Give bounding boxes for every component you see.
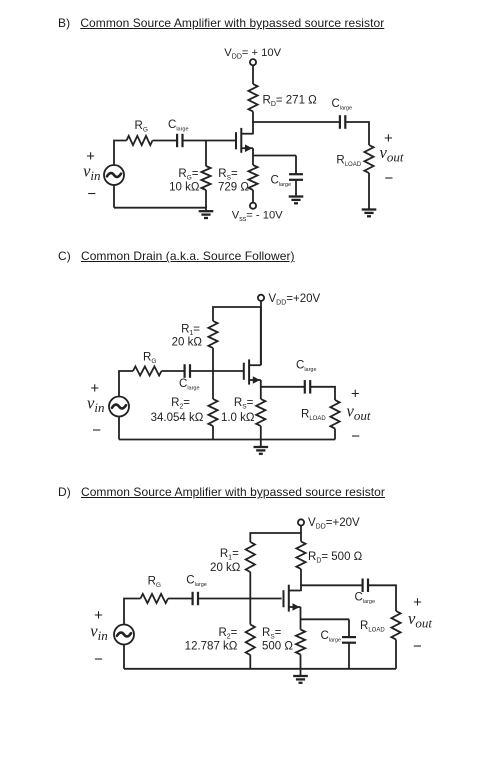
transistor M3 source arrow — [293, 603, 300, 611]
label minus vin (C) — [92, 422, 101, 439]
label VSS B — [232, 209, 283, 223]
svg-text:Clarge: Clarge — [168, 119, 189, 133]
transistor M3 gate bar — [283, 590, 285, 607]
label vout (C) — [347, 401, 371, 423]
label Clarge output (C) — [296, 360, 317, 374]
label RG (D) — [148, 576, 161, 590]
node VSS terminal B — [250, 203, 256, 209]
wire RD bottom to drain (B) — [252, 112, 254, 135]
label minus vout (D) — [413, 638, 422, 655]
wire bypass cap stem (B) — [295, 156, 297, 175]
label minus vin (B) — [87, 186, 96, 203]
label VDD D — [308, 517, 360, 531]
svg-text:vout: vout — [408, 609, 432, 631]
svg-text:RS=: RS= — [262, 627, 282, 641]
wire RG to cap (D) — [168, 598, 193, 600]
transistor M2 channel bar — [248, 359, 250, 384]
label RG (C) — [143, 351, 156, 365]
svg-text:−: − — [385, 170, 394, 187]
wire RD bottom to drain (D) — [300, 569, 302, 591]
wire source down to RS (B) — [252, 148, 254, 165]
source vin (C) — [109, 397, 129, 417]
label plus vin (D) — [94, 607, 103, 624]
label RS line1 (D) — [262, 627, 282, 641]
wire cap to gate (D) — [198, 598, 282, 600]
svg-text:Vss= - 10V: Vss= - 10V — [232, 209, 283, 223]
label plus vin (C) — [90, 380, 99, 397]
transistor M1 source arrow — [245, 144, 252, 152]
wire source node to bypass cap (B) — [253, 155, 296, 157]
transistor M2 gate bar — [243, 363, 245, 380]
wire vin to RG (D) — [124, 599, 141, 625]
source vin (B) — [104, 165, 124, 185]
label vout (D) — [408, 609, 432, 631]
wire R1 to gate wire (D) — [249, 572, 251, 599]
resistor RS (C) — [256, 399, 265, 426]
wire RG to cap (C) — [162, 370, 185, 372]
svg-text:RS=: RS= — [234, 397, 254, 411]
wire bottom rail (C) — [119, 439, 335, 441]
wire RLOAD to rail (C) — [334, 429, 336, 440]
svg-text:R2=: R2= — [171, 397, 190, 411]
transistor M2 source lead — [249, 379, 261, 381]
svg-text:Clarge: Clarge — [332, 98, 353, 112]
resistor R1 (D) — [246, 542, 255, 572]
wire cap to gate (C) — [190, 370, 243, 372]
svg-text:12.787 kΩ: 12.787 kΩ — [185, 641, 238, 653]
label R1 line1 (D) — [220, 548, 239, 562]
capacitor Clarge input (B) — [177, 134, 182, 147]
wire gate node down to RG bias (B) — [205, 141, 207, 167]
wire drain lead up (C) — [260, 307, 262, 365]
label Clarge input (B) — [168, 119, 189, 133]
wire source node to out cap (C) — [261, 386, 305, 388]
svg-text:−: − — [351, 428, 360, 445]
wire vin to RG (B) — [114, 141, 127, 166]
wire R2 to rail (C) — [212, 426, 214, 440]
node VDD terminal C — [258, 295, 264, 301]
svg-text:RLOAD: RLOAD — [336, 154, 361, 168]
resistor RG bias 10k (B) — [201, 166, 210, 190]
svg-text:20 kΩ: 20 kΩ — [172, 337, 203, 349]
wire bottom rail (B) — [114, 207, 206, 209]
wire source node to bypass cap (D) — [301, 618, 350, 620]
ground under RLOAD (B) — [362, 210, 377, 217]
label R1 line2 (D) — [210, 562, 241, 574]
svg-text:−: − — [413, 638, 422, 655]
resistor RG series (B) — [127, 136, 153, 145]
capacitor Clarge output (C) — [305, 380, 310, 394]
svg-text:34.054 kΩ: 34.054 kΩ — [151, 412, 204, 424]
svg-text:vout: vout — [347, 401, 371, 423]
label plus vout (B) — [384, 130, 393, 147]
svg-text:10 kΩ: 10 kΩ — [169, 181, 200, 193]
resistor RLOAD (C) — [330, 400, 339, 429]
svg-text:+: + — [351, 386, 360, 403]
svg-text:VDD=+20V: VDD=+20V — [308, 517, 360, 531]
svg-text:R1=: R1= — [220, 548, 239, 562]
svg-text:RLOAD: RLOAD — [360, 620, 385, 634]
wire cap to RLOAD top (B) — [345, 122, 369, 145]
resistor RLOAD (B) — [364, 145, 373, 173]
label R2 line1 (C) — [171, 397, 190, 411]
transistor M1 source lead — [241, 147, 253, 149]
svg-text:RS=: RS= — [218, 168, 238, 182]
wire bypass cap to ground (B) — [295, 180, 297, 196]
node VDD terminal B — [250, 59, 256, 65]
label R2 line1 (D) — [218, 627, 237, 641]
ground under bypass cap (B) — [289, 197, 304, 204]
label RLOAD (C) — [301, 408, 326, 422]
svg-text:RLOAD: RLOAD — [301, 408, 326, 422]
label Clarge output (D) — [355, 592, 376, 606]
wire RG bias to rail (B) — [205, 190, 207, 208]
wire bypass cap to rail (D) — [348, 643, 350, 669]
label RLOAD (D) — [360, 620, 385, 634]
label Clarge input (C) — [179, 378, 200, 392]
svg-text:1.0 kΩ: 1.0 kΩ — [221, 412, 255, 424]
wire RS to rail (C) — [260, 426, 262, 440]
wire vin bottom (B) — [113, 185, 115, 208]
wire R1 to gate wire (C) — [212, 348, 214, 371]
svg-text:20 kΩ: 20 kΩ — [210, 562, 241, 574]
transistor M3 drain lead — [289, 590, 301, 592]
svg-text:RG: RG — [148, 576, 161, 590]
label vin (C) — [87, 394, 104, 416]
label Clarge bypass (D) — [321, 630, 342, 644]
wire out cap to RLOAD (C) — [310, 387, 335, 400]
label RS line2 (B) — [218, 181, 249, 193]
wire vin bottom (D) — [123, 645, 125, 669]
label plus vout (C) — [351, 386, 360, 403]
wire Clarge to gate (B) — [183, 140, 237, 142]
resistor RG (C) — [133, 366, 162, 375]
resistor RD (B) — [248, 84, 257, 112]
label RG series (B) — [135, 120, 148, 134]
heading B — [58, 16, 384, 30]
transistor M2 source arrow — [253, 376, 260, 384]
label vin (B) — [83, 161, 100, 183]
svg-text:RD= 500 Ω: RD= 500 Ω — [308, 551, 363, 565]
label Clarge bypass (B) — [271, 174, 292, 188]
wire bypass cap stem (D) — [348, 619, 350, 637]
wire VDD to rail (D) — [300, 526, 302, 542]
resistor RLOAD (D) — [391, 611, 400, 640]
resistor RS (D) — [296, 630, 305, 655]
capacitor Clarge output (D) — [363, 579, 368, 593]
label RS line2 (D) — [262, 641, 293, 653]
transistor M1 drain lead — [241, 133, 253, 135]
svg-text:RG: RG — [135, 120, 148, 134]
wire R2 to rail (D) — [249, 655, 251, 669]
svg-text:Clarge: Clarge — [321, 630, 342, 644]
wire source down to RS (D) — [300, 607, 302, 630]
wire VDD to RD (B) — [252, 65, 254, 84]
label RD value (B) — [263, 94, 318, 108]
label VDD B — [224, 47, 281, 61]
wire RS to VSS terminal (B) — [252, 190, 254, 203]
wire RLOAD to rail (D) — [395, 640, 397, 669]
svg-text:−: − — [92, 422, 101, 439]
svg-text:Clarge: Clarge — [186, 575, 207, 589]
resistor RG (D) — [141, 594, 169, 603]
resistor RD (D) — [296, 542, 305, 570]
transistor M1 channel bar — [240, 128, 242, 153]
wire source down to RS (C) — [260, 380, 262, 399]
label R1 line1 (C) — [181, 324, 200, 338]
svg-text:VDD= + 10V: VDD= + 10V — [224, 47, 281, 61]
transistor M3 channel bar — [288, 585, 290, 612]
wire top rail to R1 (C) — [213, 307, 261, 321]
resistor R2 (C) — [208, 399, 217, 426]
label R1 line2 (C) — [172, 337, 203, 349]
label RG bias line1 (B) — [178, 168, 198, 182]
wire gate node down to R2 (C) — [212, 371, 214, 399]
transistor M1 gate bar — [235, 132, 237, 149]
wire VDD down to drain (C) — [260, 301, 262, 365]
label RLOAD (B) — [336, 154, 361, 168]
label minus vin (D) — [94, 651, 103, 668]
ground bottom rail (C) — [254, 439, 269, 454]
svg-text:−: − — [87, 186, 96, 203]
ground bottom rail (D) — [293, 668, 308, 683]
svg-text:R1=: R1= — [181, 324, 200, 338]
label RS line1 (C) — [234, 397, 254, 411]
wire vin to RG (C) — [119, 371, 133, 397]
svg-text:RD= 271 Ω: RD= 271 Ω — [263, 94, 318, 108]
capacitor Clarge input (C) — [185, 364, 190, 378]
label vout (B) — [380, 143, 404, 165]
svg-text:729 Ω: 729 Ω — [218, 181, 249, 193]
source vin (D) — [114, 625, 134, 645]
label minus vout (B) — [385, 170, 394, 187]
svg-text:RG=: RG= — [178, 168, 198, 182]
label vin (D) — [90, 621, 107, 643]
wire RS to rail (D) — [300, 655, 302, 669]
capacitor Clarge bypass (D) — [342, 637, 356, 643]
wire drain node to out cap (D) — [300, 584, 362, 586]
label Clarge output (B) — [332, 98, 353, 112]
label RG bias line2 (B) — [169, 181, 200, 193]
wire RG to Clarge (B) — [153, 140, 178, 142]
svg-text:VDD=+20V: VDD=+20V — [269, 293, 321, 307]
label VDD C — [269, 293, 321, 307]
transistor M3 source lead — [289, 606, 301, 608]
svg-text:Clarge: Clarge — [179, 378, 200, 392]
capacitor Clarge input (D) — [193, 592, 198, 605]
ground bottom rail (B) — [199, 207, 214, 218]
svg-text:−: − — [94, 651, 103, 668]
svg-text:500 Ω: 500 Ω — [262, 641, 293, 653]
capacitor Clarge output (B) — [340, 115, 345, 129]
node VDD terminal D — [298, 519, 304, 525]
wire RLOAD to ground (B) — [368, 173, 370, 210]
label R2 line2 (C) — [151, 412, 204, 424]
resistor R1 (C) — [208, 321, 217, 348]
label RS line1 (B) — [218, 168, 238, 182]
wire drain node to output cap (B) — [252, 121, 340, 123]
resistor R2 (D) — [246, 625, 255, 656]
svg-text:Clarge: Clarge — [355, 592, 376, 606]
wire vin bottom (C) — [118, 417, 120, 440]
svg-text:Clarge: Clarge — [296, 360, 317, 374]
label RD value (D) — [308, 551, 363, 565]
capacitor Clarge bypass (B) — [289, 174, 303, 180]
heading C — [58, 249, 295, 263]
svg-text:Clarge: Clarge — [271, 174, 292, 188]
label minus vout (C) — [351, 428, 360, 445]
label plus vin (B) — [86, 148, 95, 165]
wire bottom rail (D) — [124, 668, 396, 670]
label RS line2 (C) — [221, 412, 255, 424]
wire top rail to R1 (D) — [250, 533, 301, 542]
svg-text:vin: vin — [90, 621, 107, 643]
label plus vout (D) — [413, 594, 422, 611]
label Clarge input (D) — [186, 575, 207, 589]
svg-text:R2=: R2= — [218, 627, 237, 641]
label R2 line2 (D) — [185, 641, 238, 653]
transistor M2 drain lead — [249, 364, 261, 366]
wire gate node down to R2 (D) — [249, 599, 251, 625]
svg-text:RG: RG — [143, 351, 156, 365]
resistor RS (B) — [248, 165, 257, 190]
wire out cap to RLOAD (D) — [368, 585, 396, 611]
heading D — [58, 485, 385, 499]
